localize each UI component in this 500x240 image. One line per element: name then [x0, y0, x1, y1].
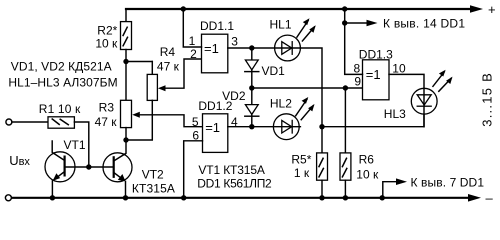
svg-text:R1 10 к: R1 10 к	[39, 102, 81, 116]
node R3/R4/VT2 collector	[123, 137, 128, 142]
svg-text:R3: R3	[99, 101, 115, 115]
node top rail to DD1.3	[342, 6, 347, 11]
gate DD1.2	[198, 99, 232, 152]
resistor R1 10 к	[39, 102, 81, 128]
svg-text:HL1–HL3 АЛ307БМ: HL1–HL3 АЛ307БМ	[8, 75, 117, 89]
wire pin 4	[228, 126, 252, 128]
svg-text:9: 9	[354, 75, 361, 89]
node row B to R6	[343, 85, 348, 90]
node K vyv 14 tap	[342, 20, 347, 25]
svg-text:DD1 К561ЛП2: DD1 К561ЛП2	[197, 177, 272, 191]
wire top supply rail	[126, 8, 472, 10]
svg-text:1: 1	[189, 34, 196, 48]
svg-text:+: +	[488, 2, 496, 17]
wire supply to pin 8	[345, 9, 363, 74]
wire HL1 cathode down	[300, 48, 322, 127]
svg-text:10: 10	[392, 61, 406, 75]
svg-text:R5*: R5*	[291, 153, 311, 167]
potentiometer R3 47 к	[95, 62, 140, 130]
svg-text:10 к: 10 к	[95, 36, 118, 50]
svg-text:47 к: 47 к	[157, 59, 180, 73]
svg-text:=1: =1	[366, 67, 381, 82]
LED HL1	[252, 18, 316, 61]
resistor R2* 10 к	[95, 9, 131, 62]
svg-text:HL2: HL2	[270, 96, 292, 110]
diode VD1	[245, 48, 285, 88]
arrow bottom rail minus	[468, 194, 481, 202]
svg-text:R6: R6	[359, 153, 375, 167]
svg-text:VT2: VT2	[142, 167, 164, 181]
wire R1 to base node	[74, 122, 88, 167]
node R6 ground	[343, 195, 348, 200]
op-amp gate DD1.1	[200, 19, 234, 73]
svg-text:VD1: VD1	[262, 64, 286, 78]
svg-text:=1: =1	[204, 41, 219, 56]
svg-text:HL3: HL3	[384, 107, 406, 121]
svg-text:DD1.1: DD1.1	[200, 19, 234, 33]
node VT2 emitter on rail	[123, 195, 128, 200]
node VD1 top	[249, 45, 254, 50]
wire R3 wiper to DD1.2 pin 5	[140, 115, 203, 127]
svg-text:47 к: 47 к	[95, 115, 118, 129]
svg-text:=1: =1	[205, 120, 220, 135]
wire row B to DD1.3 pin 9	[252, 87, 363, 89]
node VT1 emitter on rail	[50, 195, 55, 200]
transistor VT2 КТ315А	[89, 140, 175, 198]
svg-text:КТ315А: КТ315А	[132, 181, 175, 195]
node VD1/VD2 junction	[249, 85, 254, 90]
node pin1 tap	[181, 6, 186, 11]
resistor R5* 1 к	[291, 127, 327, 198]
resistor R6 10 к	[340, 88, 379, 198]
node pin6 ground	[181, 195, 186, 200]
gate DD1.3	[359, 48, 393, 100]
svg-text:5: 5	[192, 115, 199, 129]
svg-text:HL1: HL1	[270, 18, 292, 32]
svg-text:DD1.3: DD1.3	[359, 48, 393, 62]
wire R3 bottom to collector node	[125, 128, 127, 140]
svg-text:2: 2	[190, 47, 197, 61]
wire row C to HL3 cathode	[322, 114, 424, 127]
svg-text:DD1.2: DD1.2	[198, 99, 232, 113]
node base junction	[86, 164, 91, 169]
wire terminal to R1	[12, 121, 48, 123]
svg-text:–: –	[486, 190, 494, 204]
svg-text:3: 3	[231, 35, 238, 49]
node VD2 bottom / pin 4	[249, 124, 254, 129]
wire and arrow К выв. 14 DD1	[345, 22, 367, 24]
wire R4 wiper to DD1.2 pin 2	[165, 59, 202, 88]
node HL row to R5	[319, 124, 324, 129]
wire and arrow К выв. 7 DD1	[380, 195, 385, 200]
svg-text:VD1, VD2 КД521А: VD1, VD2 КД521А	[11, 59, 112, 73]
wire pin 6 to ground	[184, 141, 203, 198]
wire bottom ground rail	[12, 197, 470, 199]
wire pin 10 to HL3	[389, 74, 424, 88]
svg-text:1 к: 1 к	[294, 166, 310, 180]
svg-text:R4: R4	[160, 45, 176, 59]
svg-text:К выв. 7 DD1: К выв. 7 DD1	[411, 176, 485, 190]
node R2 bottom junction	[123, 59, 128, 64]
svg-text:VT1 КТ315А: VT1 КТ315А	[198, 163, 265, 177]
node R5 ground	[319, 195, 324, 200]
svg-text:8: 8	[354, 61, 361, 75]
svg-text:3...15 В: 3...15 В	[480, 73, 495, 127]
input terminal lower	[5, 195, 11, 201]
svg-text:К выв. 14 DD1: К выв. 14 DD1	[383, 17, 465, 31]
input terminal upper	[6, 119, 12, 125]
diode VD2	[222, 88, 259, 127]
potentiometer R4 47 к	[126, 45, 180, 101]
LED HL3	[384, 70, 453, 127]
transistor VT1	[45, 138, 89, 198]
LED HL2	[252, 96, 315, 139]
wire pin 3 to HL1 row	[228, 47, 252, 49]
svg-text:VT1: VT1	[64, 138, 86, 152]
svg-text:10 к: 10 к	[356, 167, 379, 181]
wire R4 bottom to collector node	[126, 100, 152, 140]
svg-text:Uвх: Uвх	[9, 153, 30, 168]
arrow top rail +	[470, 5, 483, 13]
wire top rail to pin 1	[183, 9, 201, 47]
